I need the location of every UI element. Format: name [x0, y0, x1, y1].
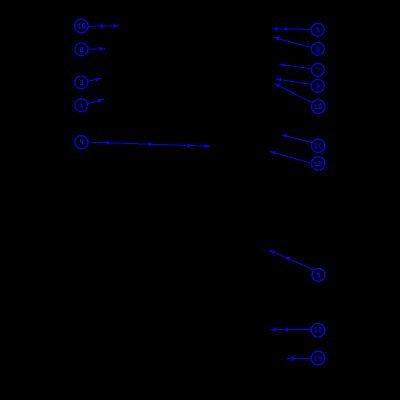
wire pin8R -> net	[273, 36, 311, 48]
pin 8 (left)	[75, 43, 88, 56]
pin 16 (left)	[75, 19, 89, 33]
wire pin14 -> net	[287, 357, 312, 361]
wire pin9 -> net (short)	[284, 255, 314, 270]
pin 12 (right)	[311, 323, 325, 337]
wire pin4 -> net d	[88, 142, 210, 148]
pin 1 (left)	[75, 99, 88, 112]
wire pin10 -> net	[273, 82, 311, 102]
pin 13 (right)	[312, 157, 325, 170]
wire pin1 -> net	[88, 97, 104, 103]
wire pin4 -> net c	[88, 142, 192, 147]
pin 7 (right)	[311, 63, 324, 76]
wire pin5R -> net (short)	[282, 27, 311, 31]
wire pin9 -> net (long)	[268, 248, 313, 269]
wire pin7R -> net	[279, 63, 311, 69]
pin 3 (left)	[75, 76, 88, 89]
wire pin3 -> net	[88, 76, 102, 81]
pin 10 (right)	[311, 100, 325, 114]
wire pin4 -> net a	[88, 141, 112, 145]
wire pin16 -> net (short)	[88, 24, 106, 28]
wire pin6R -> net	[275, 77, 311, 84]
wire pin8L -> net	[88, 47, 105, 51]
wire pin5R -> net (long)	[272, 27, 311, 31]
wire pin11 -> net	[281, 133, 312, 143]
pin 11 (right)	[312, 139, 325, 152]
wire pin13 -> net	[269, 150, 310, 163]
pin 14 (right)	[311, 351, 325, 365]
pin 8 (right)	[311, 43, 324, 56]
pin 4 (left)	[75, 136, 88, 149]
wire pin16 -> net (long)	[88, 24, 119, 28]
wire pin12 -> net (short)	[283, 328, 312, 332]
wire pin4 -> net b	[88, 142, 154, 146]
pin 9 (right)	[312, 268, 325, 281]
pin 6 (right)	[311, 80, 324, 93]
wire pin12 -> net (long)	[271, 328, 311, 332]
pin 5 (right)	[311, 23, 324, 36]
